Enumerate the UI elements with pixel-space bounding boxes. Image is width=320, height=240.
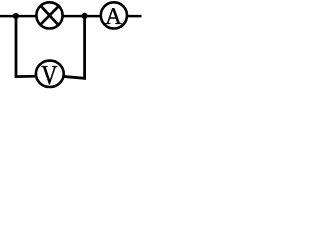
- junction node A dot: [13, 13, 19, 19]
- ammeter A1 label A (Liberation Serif glyph path): [105, 8, 121, 24]
- wire left branch (junction A down, bottom left): [16, 16, 40, 77]
- junction node B dot: [82, 13, 88, 19]
- lamp L1 cross stroke 2: [40, 5, 60, 25]
- lamp L1 cross stroke 1: [40, 5, 58, 25]
- voltmeter V1 ellipse: [36, 61, 64, 87]
- lamp L1 circle: [36, 2, 62, 28]
- wire top rail: [0, 15, 142, 18]
- wire right branch (bottom right, up to junction B): [62, 16, 85, 78]
- ammeter A1 circle: [101, 2, 127, 28]
- voltmeter V1 label V (Liberation Serif glyph path): [42, 66, 58, 84]
